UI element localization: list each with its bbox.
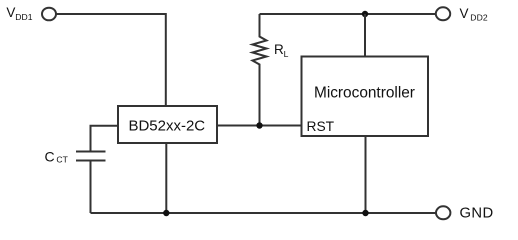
svg-text:RST: RST (307, 119, 335, 134)
IC BD52xx-2C (118, 106, 217, 143)
svg-text:BD52xx-2C: BD52xx-2C (128, 118, 205, 135)
svg-text:V: V (6, 5, 15, 20)
label CCT (45, 149, 69, 165)
terminal VDD1 (42, 8, 56, 21)
svg-text:V: V (460, 6, 469, 21)
node VDD2 junction (362, 11, 368, 17)
resistor RL (253, 14, 267, 126)
capacitor CCT (76, 152, 106, 161)
label VDD2 (460, 6, 488, 22)
wire BD52xx ground pin to ground rail (165, 143, 167, 213)
ground rail wire (91, 212, 437, 214)
wire capacitor to ground rail (90, 161, 92, 213)
svg-text:GND: GND (460, 206, 494, 222)
svg-text:DD2: DD2 (470, 12, 488, 22)
wire top VDD2 rail (260, 13, 437, 15)
svg-text:CT: CT (56, 155, 68, 165)
svg-text:L: L (284, 49, 289, 59)
wire BD52xx CT pin to capacitor (91, 126, 119, 151)
label RL (274, 42, 289, 59)
svg-text:Microcontroller: Microcontroller (314, 84, 415, 101)
wire BD52xx reset output to RST node (217, 125, 302, 127)
wire microcontroller GND pin (365, 136, 367, 213)
label VDD1 (6, 5, 32, 22)
node RST junction (256, 122, 262, 128)
svg-text:DD1: DD1 (15, 12, 33, 22)
wire microcontroller VDD pin (364, 14, 366, 57)
svg-text:C: C (45, 149, 55, 165)
microcontroller U2 (302, 57, 429, 137)
svg-text:R: R (274, 42, 284, 57)
node ground junction BD52xx (163, 210, 169, 216)
terminal GND (436, 206, 450, 219)
terminal VDD2 (436, 7, 450, 20)
node ground junction microcontroller (362, 210, 368, 216)
wire VDD1 to BD52xx VDD pin (56, 14, 166, 107)
